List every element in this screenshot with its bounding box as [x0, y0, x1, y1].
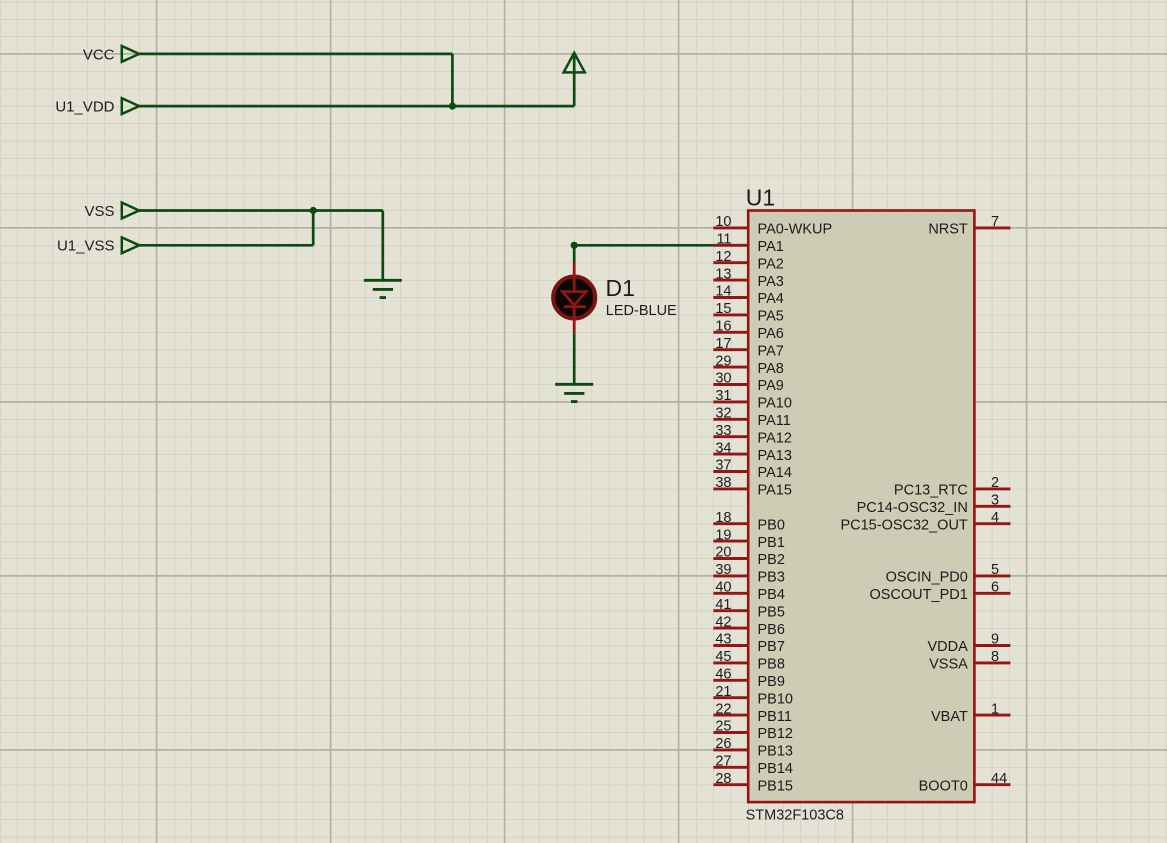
wire LED anode: [573, 245, 576, 262]
pin PB6 (pin 42): [713, 614, 785, 638]
label LED-BLUE: [606, 303, 677, 319]
wire to power symbol: [573, 56, 576, 106]
svg-text:NRST: NRST: [928, 222, 968, 238]
pin PC15-OSC32_OUT (pin 4): [840, 510, 1010, 534]
pin VDDA (pin 9): [928, 632, 1011, 656]
svg-text:PB8: PB8: [758, 657, 785, 673]
pin PB9 (pin 46): [713, 667, 785, 691]
svg-text:38: 38: [715, 475, 731, 491]
svg-text:VDDA: VDDA: [928, 639, 969, 655]
svg-text:18: 18: [715, 510, 731, 526]
svg-text:2: 2: [991, 475, 999, 491]
svg-text:PA0-WKUP: PA0-WKUP: [758, 222, 833, 238]
svg-text:40: 40: [715, 580, 731, 596]
wire U1_VSS horizontal: [138, 244, 313, 247]
svg-text:LED-BLUE: LED-BLUE: [606, 303, 677, 319]
pin PB8 (pin 45): [713, 649, 785, 673]
ground symbol (LED): [555, 384, 593, 401]
pin PC13_RTC (pin 2): [894, 475, 1010, 499]
pin NRST (pin 7): [928, 214, 1010, 238]
svg-text:44: 44: [991, 771, 1007, 787]
svg-text:PB14: PB14: [758, 761, 793, 777]
terminal VSS: [84, 203, 139, 220]
svg-text:10: 10: [715, 214, 731, 230]
svg-text:PA6: PA6: [758, 326, 784, 342]
svg-text:PB1: PB1: [758, 535, 785, 551]
ground symbol (VSS): [364, 280, 402, 297]
pin OSCOUT_PD1 (pin 6): [869, 580, 1010, 604]
svg-text:PA9: PA9: [758, 378, 784, 394]
pin PB15 (pin 28): [713, 771, 793, 795]
svg-text:43: 43: [715, 632, 731, 648]
svg-text:17: 17: [715, 336, 731, 352]
svg-text:PA5: PA5: [758, 309, 784, 325]
pin PA1 (pin 11): [713, 232, 783, 256]
svg-text:19: 19: [715, 527, 731, 543]
svg-text:3: 3: [991, 493, 999, 509]
svg-text:31: 31: [715, 388, 731, 404]
pin PA7 (pin 17): [713, 336, 783, 360]
wire U1_VDD horizontal: [138, 105, 574, 108]
LED D1 pins and diode symbol: [562, 263, 586, 334]
wire U1_VSS vertical up: [312, 209, 315, 245]
svg-text:VBAT: VBAT: [931, 709, 968, 725]
svg-text:PA14: PA14: [758, 465, 792, 481]
svg-text:4: 4: [991, 510, 999, 526]
svg-text:PA1: PA1: [758, 239, 784, 255]
terminal VCC: [83, 46, 139, 63]
svg-text:PA4: PA4: [758, 291, 784, 307]
LED D1 body: [553, 277, 595, 319]
IC U1 body: [748, 211, 974, 803]
svg-text:11: 11: [716, 232, 731, 248]
svg-text:13: 13: [715, 266, 731, 282]
pin PA8 (pin 29): [713, 353, 783, 377]
svg-text:OSCIN_PD0: OSCIN_PD0: [886, 570, 968, 586]
label U1: [746, 185, 775, 211]
pin PA15 (pin 38): [713, 475, 792, 499]
svg-text:PB0: PB0: [758, 517, 785, 533]
pin PB4 (pin 40): [713, 580, 785, 604]
svg-text:39: 39: [715, 562, 731, 578]
svg-text:PB5: PB5: [758, 604, 785, 620]
pin PB12 (pin 25): [713, 719, 793, 743]
pin PB2 (pin 20): [713, 545, 785, 569]
svg-text:PA7: PA7: [758, 343, 784, 359]
pin PA2 (pin 12): [713, 249, 783, 273]
svg-text:U1: U1: [746, 185, 775, 211]
svg-text:26: 26: [715, 736, 731, 752]
svg-text:45: 45: [715, 649, 731, 665]
pin PA14 (pin 37): [713, 458, 792, 482]
svg-text:7: 7: [991, 214, 999, 230]
svg-text:PA12: PA12: [758, 430, 792, 446]
svg-text:21: 21: [715, 684, 731, 700]
svg-text:VSS: VSS: [84, 203, 114, 220]
junction VSS/U1_VSS: [310, 207, 317, 214]
svg-text:OSCOUT_PD1: OSCOUT_PD1: [869, 587, 967, 603]
svg-text:BOOT0: BOOT0: [919, 778, 968, 794]
pin PA10 (pin 31): [713, 388, 792, 412]
svg-text:PA3: PA3: [758, 274, 784, 290]
pin PA4 (pin 14): [713, 284, 783, 308]
pin PA11 (pin 32): [713, 406, 790, 430]
svg-text:14: 14: [715, 284, 731, 300]
svg-text:PB11: PB11: [758, 709, 792, 725]
svg-text:28: 28: [715, 771, 731, 787]
svg-text:27: 27: [715, 754, 731, 770]
svg-text:PC14-OSC32_IN: PC14-OSC32_IN: [857, 500, 968, 516]
svg-text:1: 1: [991, 701, 999, 717]
pin VSSA (pin 8): [929, 649, 1010, 673]
svg-text:VSSA: VSSA: [929, 657, 968, 673]
svg-text:16: 16: [715, 319, 731, 335]
pin PA12 (pin 33): [713, 423, 792, 447]
svg-text:37: 37: [715, 458, 731, 474]
pin PA5 (pin 15): [713, 301, 783, 325]
svg-text:9: 9: [991, 632, 999, 648]
svg-text:PB13: PB13: [758, 744, 793, 760]
pin PA3 (pin 13): [713, 266, 783, 290]
power symbol (VCC arrow): [564, 53, 585, 73]
pin PA13 (pin 34): [713, 440, 792, 464]
svg-text:12: 12: [715, 249, 731, 265]
junction LED node: [571, 242, 578, 249]
pin PB13 (pin 26): [713, 736, 793, 760]
pin PB10 (pin 21): [713, 684, 793, 708]
pin PA6 (pin 16): [713, 319, 783, 343]
label STM32F103C8: [746, 808, 844, 824]
svg-text:PB10: PB10: [758, 691, 793, 707]
pin PB1 (pin 19): [713, 527, 785, 551]
svg-text:PB3: PB3: [758, 570, 785, 586]
svg-text:20: 20: [715, 545, 731, 561]
svg-text:42: 42: [715, 614, 731, 630]
svg-text:15: 15: [715, 301, 731, 317]
svg-text:D1: D1: [606, 275, 635, 301]
junction VCC/U1_VDD: [449, 103, 456, 110]
svg-text:32: 32: [715, 406, 731, 422]
wire VCC horizontal: [138, 53, 453, 56]
pin PB0 (pin 18): [713, 510, 785, 534]
svg-text:25: 25: [715, 719, 731, 735]
svg-text:PA11: PA11: [758, 413, 791, 429]
svg-text:PA10: PA10: [758, 396, 792, 412]
svg-text:PA15: PA15: [758, 483, 792, 499]
svg-text:PB12: PB12: [758, 726, 793, 742]
svg-text:PB15: PB15: [758, 778, 793, 794]
svg-text:PB2: PB2: [758, 552, 785, 568]
pin PB7 (pin 43): [713, 632, 785, 656]
pin PB5 (pin 41): [713, 597, 785, 621]
pin VBAT (pin 1): [931, 701, 1010, 725]
svg-text:8: 8: [991, 649, 999, 665]
svg-text:6: 6: [991, 580, 999, 596]
svg-text:PB6: PB6: [758, 622, 785, 638]
svg-text:PA2: PA2: [758, 256, 784, 272]
terminal U1_VDD: [55, 98, 139, 115]
svg-text:34: 34: [715, 440, 731, 456]
svg-text:U1_VSS: U1_VSS: [57, 238, 115, 255]
svg-text:PC13_RTC: PC13_RTC: [894, 483, 968, 499]
pin PB14 (pin 27): [713, 754, 793, 778]
svg-text:U1_VDD: U1_VDD: [55, 99, 114, 116]
wire VCC vertical drop: [451, 54, 454, 106]
svg-text:VCC: VCC: [83, 46, 115, 63]
svg-text:5: 5: [991, 562, 999, 578]
svg-text:41: 41: [715, 597, 731, 613]
pin PC14-OSC32_IN (pin 3): [857, 493, 1011, 517]
pin PB11 (pin 22): [713, 701, 792, 725]
svg-text:33: 33: [715, 423, 731, 439]
svg-text:PB7: PB7: [758, 639, 785, 655]
wire VSS vertical to ground: [381, 211, 384, 281]
pin PA0-WKUP (pin 10): [713, 214, 832, 238]
terminal U1_VSS: [57, 237, 139, 254]
svg-text:PB4: PB4: [758, 587, 785, 603]
svg-text:PA13: PA13: [758, 448, 792, 464]
svg-text:PA8: PA8: [758, 361, 784, 377]
wire LED cathode to ground: [573, 333, 576, 384]
wire VSS horizontal: [138, 209, 383, 212]
svg-text:29: 29: [715, 353, 731, 369]
svg-text:PB9: PB9: [758, 674, 785, 690]
svg-text:22: 22: [715, 701, 731, 717]
pin BOOT0 (pin 44): [919, 771, 1011, 795]
label D1: [606, 275, 635, 301]
pin PA9 (pin 30): [713, 371, 783, 395]
svg-text:STM32F103C8: STM32F103C8: [746, 808, 844, 824]
pin PB3 (pin 39): [713, 562, 785, 586]
pin OSCIN_PD0 (pin 5): [886, 562, 1011, 586]
svg-text:PC15-OSC32_OUT: PC15-OSC32_OUT: [840, 517, 967, 533]
wire PA1 to LED: [574, 244, 713, 247]
svg-text:30: 30: [715, 371, 731, 387]
svg-text:46: 46: [715, 667, 731, 683]
